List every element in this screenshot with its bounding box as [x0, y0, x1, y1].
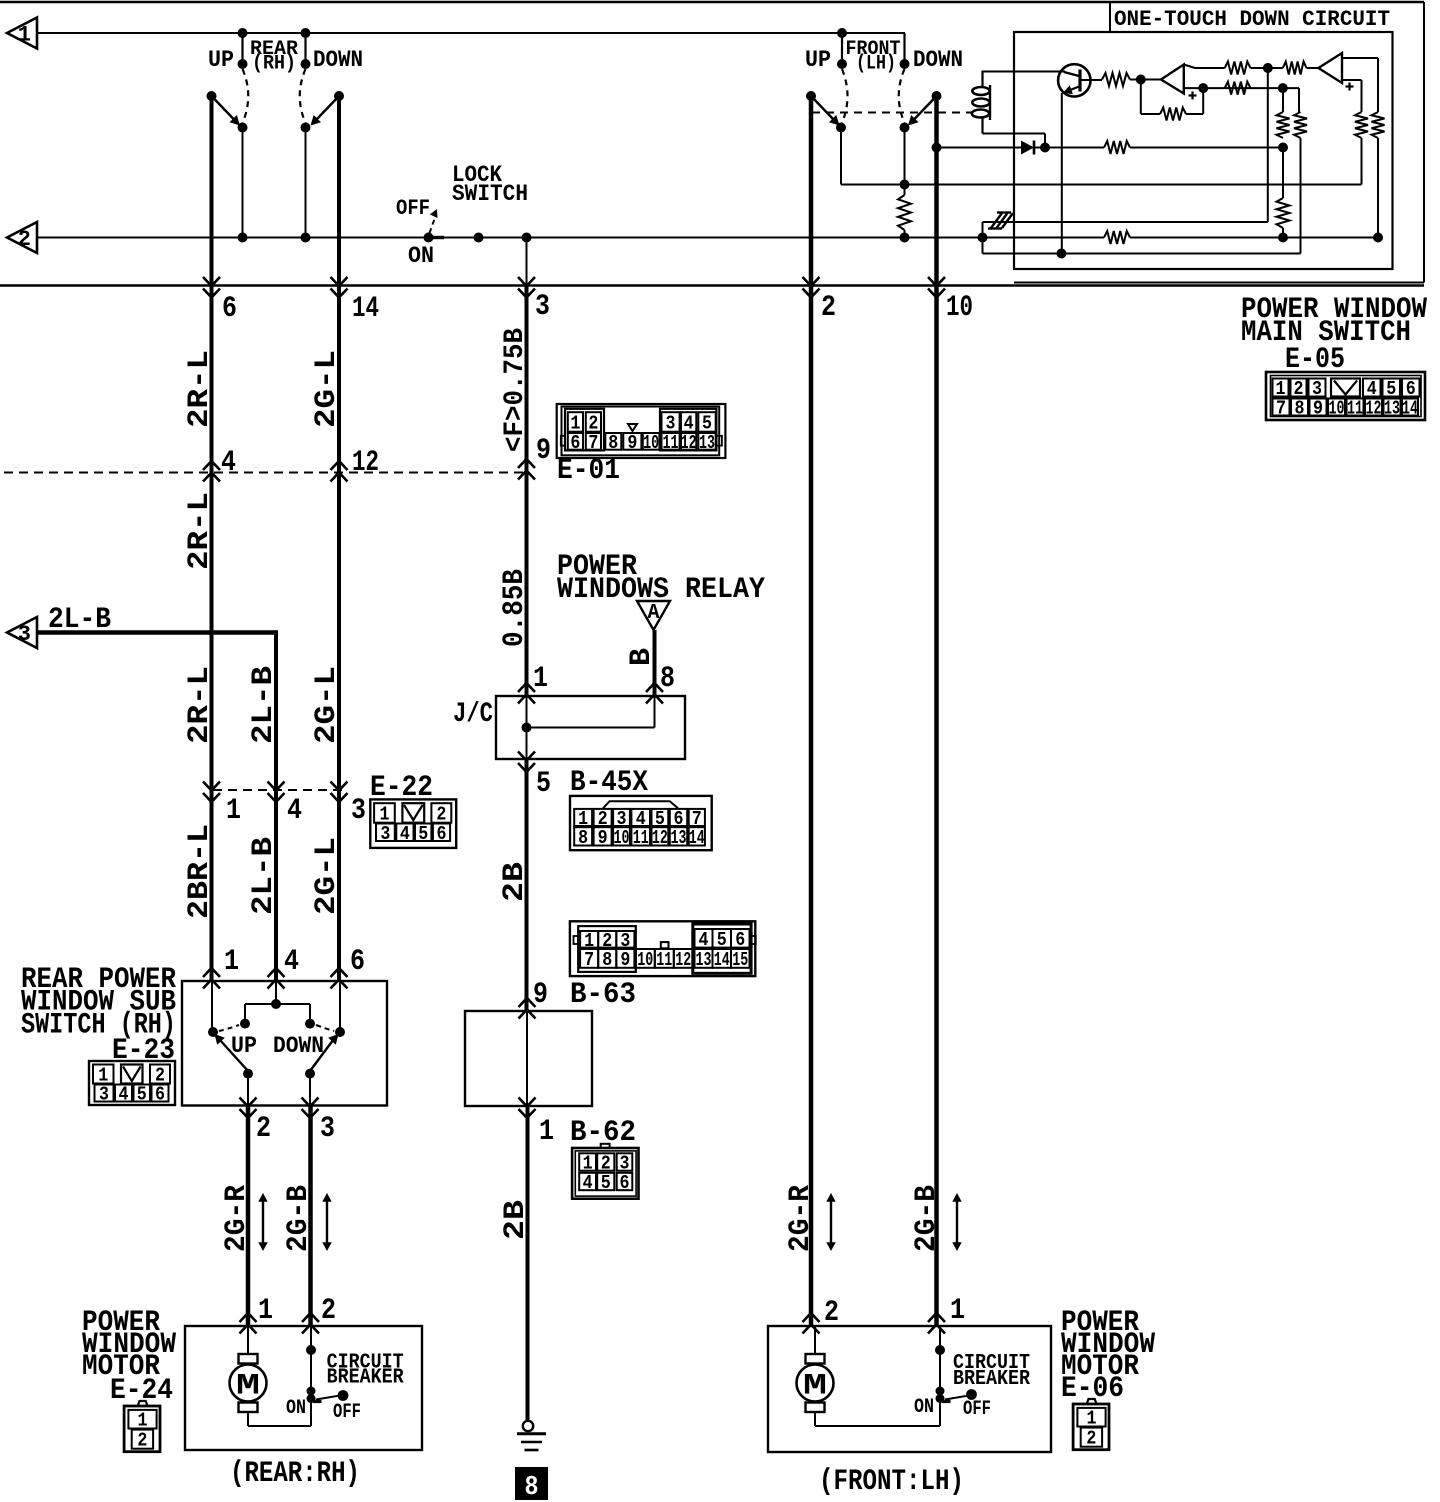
- op-amp U1: [1161, 65, 1184, 94]
- relay coil: [981, 71, 983, 88]
- svg-text:2G-L: 2G-L: [310, 350, 344, 428]
- connector E-01: [557, 404, 726, 458]
- switch FRONT contact down: [900, 123, 910, 133]
- svg-text:<F>0.75B: <F>0.75B: [500, 328, 531, 452]
- svg-text:3: 3: [18, 622, 31, 647]
- svg-text:(REAR:RH): (REAR:RH): [230, 1457, 360, 1491]
- svg-text:M: M: [803, 1370, 827, 1404]
- resistor R6: [1104, 141, 1130, 154]
- wire 2R-L rear-up: [210, 96, 214, 981]
- wire coil bottom to diode node: [983, 133, 1046, 135]
- svg-text:5: 5: [418, 823, 428, 845]
- svg-text:8: 8: [660, 662, 675, 696]
- node ground ref 8: [515, 1467, 548, 1500]
- svg-text:7: 7: [588, 432, 598, 454]
- arrow up-down rear right: [326, 1199, 328, 1245]
- svg-text:6: 6: [222, 292, 237, 326]
- switch FRONT lever up: [806, 91, 816, 101]
- svg-text:1: 1: [1087, 1408, 1097, 1430]
- svg-text:UP: UP: [805, 47, 831, 73]
- svg-text:1: 1: [138, 1410, 148, 1432]
- svg-text:OFF: OFF: [396, 196, 430, 221]
- svg-text:ON: ON: [408, 243, 434, 269]
- svg-text:14: 14: [689, 827, 705, 849]
- svg-text:3: 3: [380, 823, 390, 845]
- svg-text:8: 8: [578, 827, 588, 849]
- wire 2G-R rear motor: [246, 1106, 251, 1327]
- wire bus line 1: [37, 32, 905, 34]
- svg-text:4: 4: [583, 1172, 593, 1194]
- svg-text:4: 4: [221, 446, 236, 480]
- wire U1 minus line: [1184, 87, 1299, 89]
- svg-text:0.85B: 0.85B: [498, 569, 532, 647]
- svg-text:12: 12: [652, 827, 668, 849]
- junction J/C box: [496, 696, 685, 759]
- component B-63 body box: [465, 1011, 592, 1106]
- wire zzz line: [983, 221, 1268, 223]
- svg-text:E-06: E-06: [1061, 1372, 1124, 1406]
- svg-text:12: 12: [681, 432, 697, 454]
- wire relay B: [653, 630, 657, 696]
- node diode cathode junction: [1040, 143, 1050, 153]
- component rear motor box E-24: [185, 1326, 422, 1450]
- svg-text:10: 10: [614, 827, 630, 849]
- svg-text:5: 5: [536, 767, 551, 801]
- svg-text:(RH): (RH): [252, 53, 296, 76]
- motor M rear: [247, 1326, 249, 1354]
- svg-text:9: 9: [598, 827, 608, 849]
- wire sub out pin3: [309, 1074, 311, 1106]
- wire top border bus: [0, 1, 1424, 4]
- wire 2G-B rear motor: [308, 1106, 313, 1327]
- motor M front: [814, 1326, 816, 1354]
- arrow up-down front left: [830, 1199, 832, 1245]
- svg-text:14: 14: [714, 949, 730, 971]
- wire 0.75B lock to separator: [526, 238, 528, 286]
- wire emitter down: [1061, 93, 1063, 254]
- switch REAR lever up: [207, 91, 217, 101]
- svg-text:12: 12: [1366, 398, 1382, 420]
- svg-text:2L-B: 2L-B: [247, 837, 281, 915]
- svg-text:8: 8: [602, 949, 612, 971]
- wire 2G-L rear-down: [337, 96, 341, 981]
- svg-text:DOWN: DOWN: [273, 1033, 324, 1059]
- connector E-05: [1266, 372, 1425, 420]
- svg-text:4: 4: [699, 929, 709, 951]
- resistor R2 U1 top: [1184, 65, 1225, 69]
- wire U2 out top to RB-right: [1342, 57, 1378, 59]
- switch sub lever down: [310, 1040, 334, 1072]
- svg-text:OFF: OFF: [333, 1401, 361, 1424]
- wire 2G-B front: [934, 96, 939, 1326]
- switch REAR dashed plunger right: [300, 69, 306, 123]
- wire line2 bracket: [982, 222, 984, 254]
- svg-text:6: 6: [437, 823, 447, 845]
- svg-text:A: A: [648, 602, 660, 625]
- svg-text:1: 1: [533, 662, 548, 696]
- resistor RB-left: [1355, 112, 1368, 138]
- svg-text:2B: 2B: [499, 1200, 533, 1240]
- one-touch outer box: [1109, 2, 1111, 32]
- arrow up-down front right: [956, 1199, 958, 1245]
- svg-text:B-63: B-63: [570, 978, 636, 1012]
- svg-text:UP: UP: [208, 47, 234, 73]
- connector B-63: [570, 921, 755, 976]
- svg-text:2BR-L: 2BR-L: [183, 824, 217, 919]
- svg-text:8: 8: [1295, 398, 1305, 420]
- svg-text:1: 1: [539, 1115, 554, 1149]
- svg-text:1: 1: [950, 1294, 965, 1328]
- node collector junction: [1136, 75, 1146, 85]
- svg-text:2: 2: [18, 227, 31, 252]
- wire front contact up: [840, 128, 842, 185]
- resistor R5: [1225, 82, 1251, 95]
- switch FRONT dashed plunger right: [899, 69, 905, 123]
- svg-text:4: 4: [284, 945, 299, 979]
- svg-text:9: 9: [620, 949, 630, 971]
- transistor Q1: [1058, 64, 1090, 96]
- svg-text:M: M: [236, 1370, 260, 1404]
- svg-text:BREAKER: BREAKER: [953, 1368, 1030, 1391]
- svg-text:DOWN: DOWN: [313, 47, 363, 73]
- node 1 connector triangle: [7, 18, 37, 49]
- svg-text:2G-R: 2G-R: [220, 1185, 254, 1252]
- node R5 out junction: [1278, 83, 1288, 93]
- svg-text:ON: ON: [914, 1396, 934, 1419]
- wire diode to R6: [1045, 147, 1104, 149]
- svg-text:10: 10: [946, 291, 973, 325]
- svg-text:6: 6: [570, 432, 580, 454]
- switch REAR contact up: [238, 123, 248, 133]
- node R6 line to RA-left bottom: [1278, 143, 1288, 153]
- svg-text:ONE-TOUCH DOWN CIRCUIT: ONE-TOUCH DOWN CIRCUIT: [1114, 7, 1390, 32]
- svg-text:J/C: J/C: [453, 699, 493, 730]
- svg-text:4: 4: [400, 823, 410, 845]
- switch FRONT(LH) stub right: [903, 33, 905, 64]
- svg-text:9: 9: [536, 434, 551, 468]
- svg-text:(FRONT:LH): (FRONT:LH): [819, 1465, 964, 1499]
- component front motor box E-06: [768, 1326, 1051, 1452]
- wire 2B B-62 to ground: [526, 1106, 530, 1420]
- svg-text:2R-L: 2R-L: [183, 666, 217, 744]
- circuit breaker rear: [310, 1326, 312, 1392]
- svg-text:7: 7: [584, 949, 594, 971]
- wire sub switch pin1 internal: [211, 981, 213, 1029]
- svg-text:2: 2: [321, 1294, 336, 1328]
- svg-text:9: 9: [533, 978, 548, 1012]
- svg-text:1: 1: [258, 1294, 273, 1328]
- svg-text:6: 6: [735, 929, 745, 951]
- wire through B-63 body: [526, 1011, 528, 1106]
- svg-text:14: 14: [352, 292, 379, 326]
- wire U2 to RB-left: [1342, 79, 1362, 81]
- arrow up-down rear left: [262, 1199, 264, 1245]
- switch sub contact down: [335, 1027, 345, 1037]
- switch FRONT(LH) stub left: [841, 33, 843, 64]
- resistor R9: [1277, 198, 1290, 228]
- resistor RA-left: [1282, 88, 1284, 112]
- svg-text:E-23: E-23: [112, 1034, 175, 1068]
- wire harness dashed E-22 boundary: [213, 789, 345, 791]
- wire coil top to transistor base: [983, 71, 1066, 73]
- resistor R1 collector: [1102, 73, 1130, 86]
- svg-text:5: 5: [137, 1084, 147, 1106]
- node J/C junction: [522, 723, 532, 733]
- resistor R8: [1104, 231, 1130, 244]
- node 2 connector triangle: [7, 222, 37, 253]
- wire harness dashed E-01 boundary: [4, 472, 527, 474]
- switch LOCK common: [424, 233, 434, 243]
- svg-text:14: 14: [1402, 398, 1418, 420]
- switch FRONT contact up: [836, 123, 846, 133]
- svg-text:2: 2: [256, 1112, 271, 1146]
- svg-text:5: 5: [717, 929, 727, 951]
- resistor RB-right: [1372, 112, 1385, 138]
- switch REAR contact down: [301, 123, 311, 133]
- svg-text:13: 13: [696, 949, 712, 971]
- svg-text:DOWN: DOWN: [913, 47, 963, 73]
- svg-text:2R-L: 2R-L: [183, 492, 217, 570]
- circuit breaker front: [939, 1326, 941, 1392]
- svg-text:6: 6: [620, 1172, 630, 1194]
- wire rear contact up to line2: [242, 128, 244, 238]
- switch FRONT lever down: [932, 91, 942, 101]
- svg-text:9: 9: [1313, 398, 1323, 420]
- svg-text:E-24: E-24: [110, 1374, 173, 1408]
- svg-text:E-01: E-01: [557, 454, 620, 488]
- relay terminal A triangle: [637, 601, 670, 630]
- one-touch inner box: [1014, 32, 1393, 269]
- svg-text:10: 10: [637, 949, 653, 971]
- svg-text:2: 2: [137, 1430, 147, 1452]
- wire R2 node down to zzz line: [1267, 68, 1269, 222]
- switch sub dashed link right: [316, 1025, 334, 1031]
- svg-text:9: 9: [627, 432, 637, 454]
- connector B-45X: [570, 796, 712, 850]
- switch REAR(RH) stub left: [241, 33, 243, 64]
- op-amp U2: [1318, 53, 1342, 83]
- wire front contact down: [904, 128, 906, 196]
- wire sub switch pin6 internal: [339, 981, 341, 1029]
- component rear sub switch box: [182, 981, 387, 1106]
- resistor R3 feedback U1: [1140, 80, 1142, 115]
- svg-text:2: 2: [821, 291, 836, 325]
- svg-text:2G-B: 2G-B: [282, 1185, 316, 1252]
- svg-text:6: 6: [155, 1084, 165, 1106]
- svg-text:13: 13: [1384, 398, 1400, 420]
- svg-text:13: 13: [671, 827, 687, 849]
- svg-text:2R-L: 2R-L: [183, 350, 217, 428]
- wire 2G-R front: [809, 96, 814, 1326]
- ground: [523, 1421, 533, 1431]
- wire bus line 2: [37, 237, 983, 239]
- wire inside J/C: [526, 696, 528, 759]
- wire 2L-B from triangle 3: [37, 630, 278, 635]
- connector E-23: [89, 1061, 175, 1105]
- switch LOCK lever dashed: [430, 219, 435, 233]
- svg-text:2G-R: 2G-R: [784, 1185, 818, 1252]
- resistor R4 to U2: [1268, 67, 1283, 69]
- switch LOCK ON blade: [433, 236, 444, 239]
- svg-text:11: 11: [633, 827, 649, 849]
- svg-text:7: 7: [1276, 398, 1286, 420]
- svg-text:ON: ON: [286, 1397, 306, 1420]
- node line2 junction a: [474, 233, 484, 243]
- svg-text:3: 3: [351, 794, 366, 828]
- wire switch common to RB-left: [841, 184, 1362, 186]
- svg-text:B-62: B-62: [570, 1116, 636, 1150]
- diode D1: [937, 147, 1022, 149]
- connector E-22: [370, 799, 456, 848]
- switch REAR lever down: [334, 91, 344, 101]
- svg-text:3: 3: [535, 290, 550, 324]
- svg-text:B: B: [625, 648, 659, 666]
- svg-text:2B: 2B: [498, 862, 532, 902]
- wire RA-right bottom: [1300, 138, 1302, 254]
- svg-text:1: 1: [226, 794, 241, 828]
- node emitter junction: [1057, 249, 1067, 259]
- wire 2B J/C to B-63: [525, 759, 529, 1011]
- switch sub dashed link left: [219, 1025, 239, 1031]
- svg-text:SWITCH: SWITCH: [452, 181, 528, 207]
- svg-text:12: 12: [352, 446, 379, 480]
- switch FRONT dashed plunger left: [842, 69, 848, 123]
- node 3 connector triangle: [7, 617, 37, 648]
- wire emitter line y253: [983, 253, 1301, 255]
- svg-text:3: 3: [99, 1084, 109, 1106]
- svg-text:2G-L: 2G-L: [310, 666, 344, 744]
- svg-text:3: 3: [320, 1112, 335, 1146]
- svg-text:2L-B: 2L-B: [247, 666, 281, 744]
- svg-text:11: 11: [1347, 398, 1363, 420]
- node R2-R4 junction: [1263, 63, 1273, 73]
- switch sub lever up: [220, 1040, 249, 1072]
- svg-text:11: 11: [663, 432, 679, 454]
- wire RB-right bottom to line2 ext: [1377, 138, 1379, 238]
- node line2 junction b: [522, 233, 532, 243]
- svg-text:8: 8: [525, 1473, 539, 1502]
- connector B-62: [601, 1144, 610, 1148]
- resistor RA-right: [1294, 112, 1307, 138]
- wire 0.75B below separator: [525, 286, 529, 697]
- wire RA-right top corner: [1298, 88, 1300, 112]
- node line2 entry: [978, 233, 988, 243]
- svg-text:10: 10: [1329, 398, 1345, 420]
- wire collector: [1080, 79, 1102, 81]
- switch sub common bar: [245, 1003, 310, 1005]
- switch REAR(RH) stub right: [304, 33, 306, 64]
- switch sub contact up: [208, 1027, 218, 1037]
- svg-text:BREAKER: BREAKER: [327, 1367, 404, 1390]
- wire separator main-switch boundary: [0, 284, 1424, 286]
- connector E-06: [1087, 1399, 1096, 1403]
- zzz noise symbol: [997, 211, 1011, 213]
- svg-text:1: 1: [18, 23, 31, 48]
- svg-text:(LH): (LH): [856, 53, 896, 76]
- wire sub out pin2: [247, 1074, 249, 1106]
- mechanical dashed link front: [812, 112, 972, 114]
- switch REAR dashed plunger left: [243, 69, 249, 123]
- svg-text:5: 5: [601, 1172, 611, 1194]
- resistor front down: [898, 195, 911, 230]
- connector E-24: [138, 1401, 147, 1405]
- svg-text:12: 12: [675, 949, 691, 971]
- svg-text:2G-L: 2G-L: [310, 837, 344, 915]
- svg-text:13: 13: [699, 432, 715, 454]
- svg-text:4: 4: [119, 1084, 129, 1106]
- svg-text:4: 4: [287, 794, 302, 828]
- svg-text:2: 2: [1086, 1428, 1096, 1450]
- wire rear contact down to line2: [305, 128, 307, 238]
- svg-text:6: 6: [350, 945, 365, 979]
- wire line2 extension with R8: [983, 237, 1105, 239]
- svg-text:2G-B: 2G-B: [910, 1185, 944, 1252]
- svg-text:15: 15: [732, 949, 748, 971]
- svg-text:8: 8: [608, 432, 618, 454]
- svg-text:OFF: OFF: [963, 1398, 991, 1421]
- svg-text:1: 1: [224, 945, 239, 979]
- svg-text:11: 11: [656, 949, 672, 971]
- wire sub switch pin4 internal: [275, 981, 277, 1004]
- svg-text:10: 10: [643, 432, 659, 454]
